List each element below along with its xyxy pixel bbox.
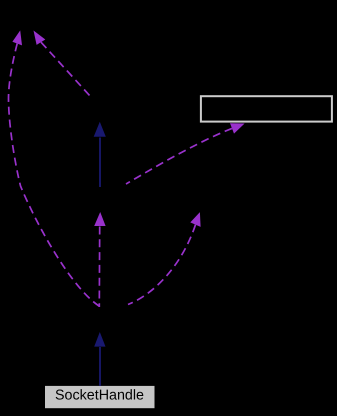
node SocketHandle (current node, bottom) (45, 386, 155, 408)
wire: dashed usage arrow D4 (row-C node up-right to empty box) (126, 123, 245, 184)
wire: dashed usage arrow D2 (long left curve, row-D node up to top-left node) (8, 30, 99, 306)
wire: solid inheritance arrow V2 (SocketHandle up to row-D node) (94, 332, 105, 386)
wire: dashed usage arrow D5 (row-D node curving up-right to row-C right node) (128, 212, 201, 304)
wire: solid inheritance arrow V1 (mid node up to row-B node) (94, 122, 106, 187)
wire: dashed usage arrow D1 (row-D node up to row-C node) (94, 212, 105, 307)
wire: dashed usage arrow D3 (row-B node up-left to top-left node) (34, 31, 91, 97)
node: empty box (top right) (201, 96, 332, 121)
svg-text:SocketHandle: SocketHandle (55, 388, 144, 404)
